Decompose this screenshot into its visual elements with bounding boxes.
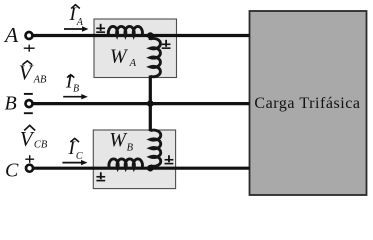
svg-text:V: V (20, 127, 35, 151)
svg-text:A: A (3, 23, 19, 47)
svg-text:B: B (5, 93, 17, 115)
svg-text:W: W (110, 46, 129, 68)
svg-text:W: W (109, 129, 128, 151)
svg-text:Carga Trifásica: Carga Trifásica (254, 95, 360, 112)
svg-text:CB: CB (34, 139, 48, 150)
svg-text:B: B (73, 83, 79, 94)
svg-text:AB: AB (33, 75, 47, 86)
svg-text:C: C (76, 151, 83, 162)
svg-text:A: A (76, 17, 84, 28)
svg-text:C: C (5, 160, 19, 182)
svg-text:A: A (129, 58, 137, 69)
svg-text:B: B (127, 143, 134, 154)
